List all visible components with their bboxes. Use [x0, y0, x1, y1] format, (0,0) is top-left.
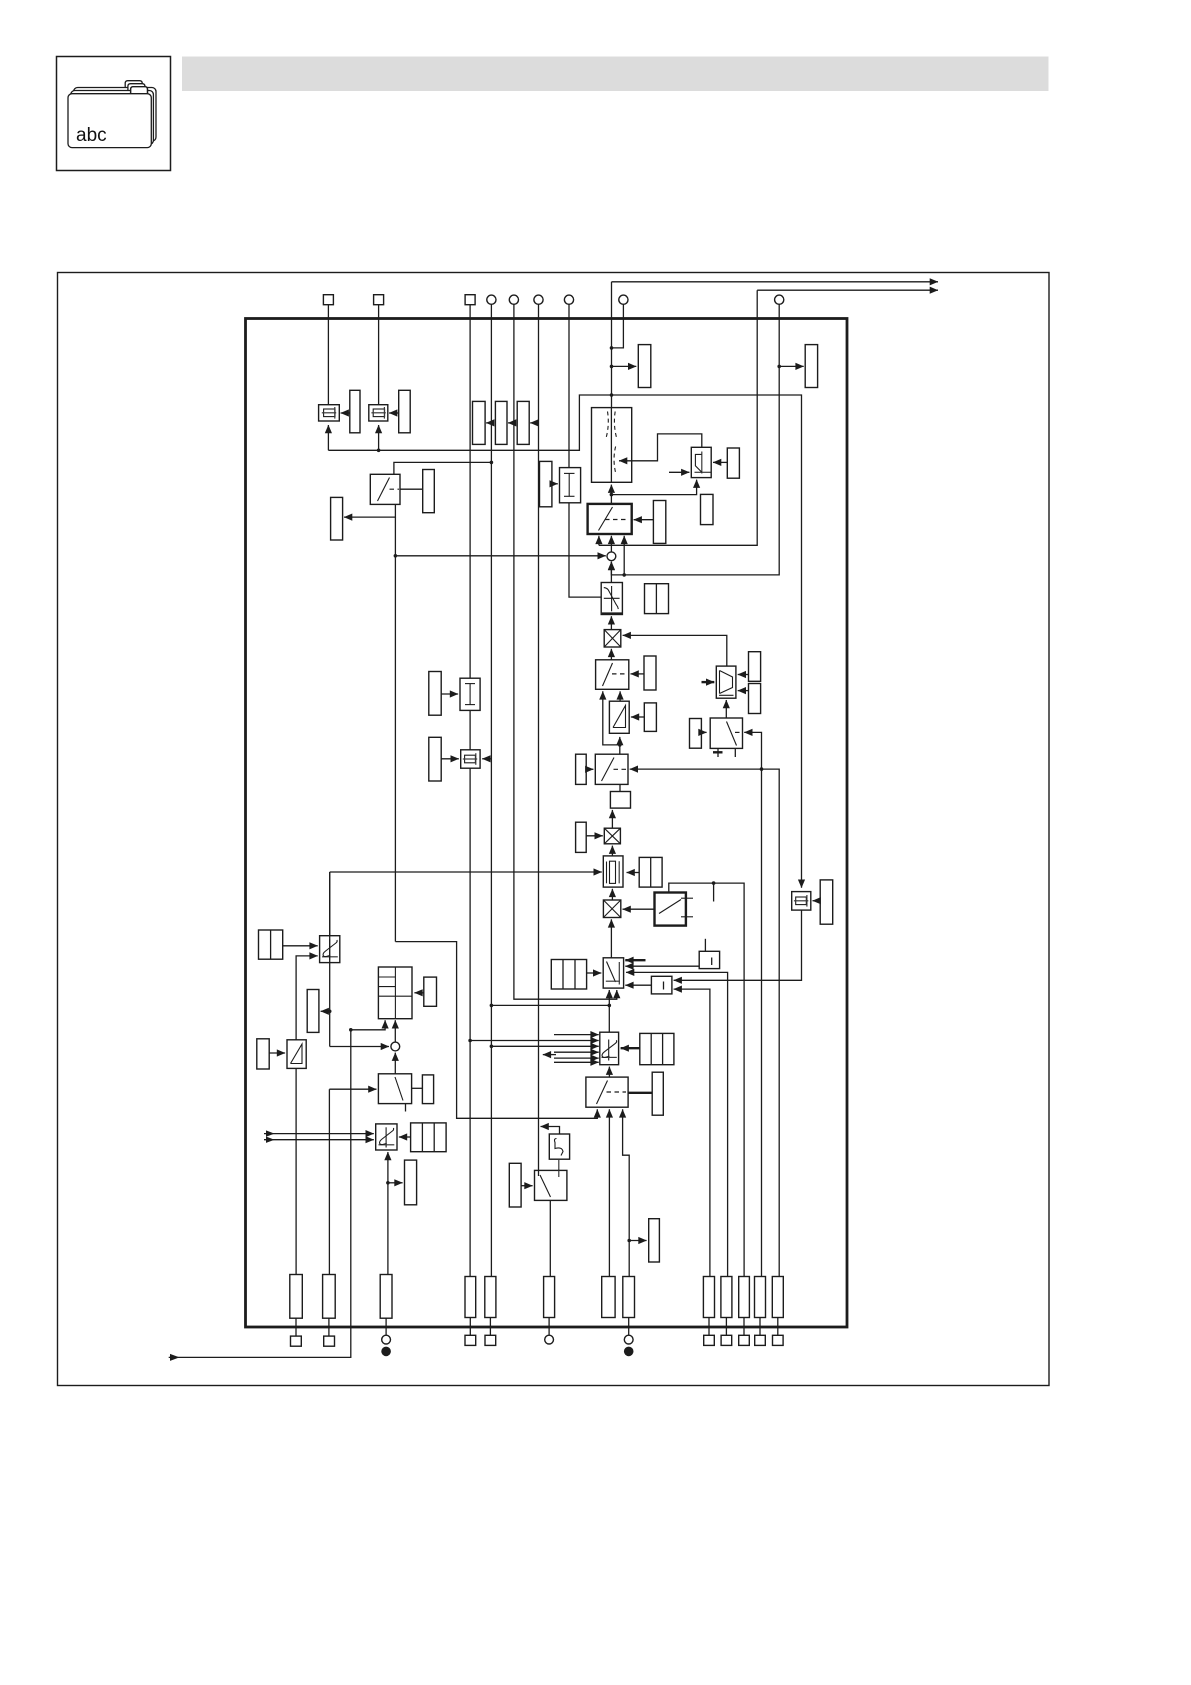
- terminal circle C6: [775, 295, 784, 304]
- parameter rect TR2: [399, 390, 411, 433]
- wire C5 jog to main spine: [612, 304, 624, 348]
- parameter triple rect left of P1: [551, 960, 586, 990]
- S5 output up into S4 bottom: [608, 1067, 610, 1078]
- branch X3 wire into selector S4: [470, 1040, 599, 1042]
- SW0 output down, arrow into TR4: [344, 504, 395, 517]
- display rect right of spine top: [638, 345, 651, 388]
- arrow into S7 left: [521, 1185, 533, 1187]
- arrow up into RB2 bottom: [619, 737, 621, 745]
- junction dot: [610, 346, 614, 350]
- SW1 output up to junction: [610, 495, 612, 504]
- speed controller P1: [603, 958, 623, 988]
- wire S2 bottom to SB top: [619, 784, 621, 791]
- long wire from bottom right into S2: [630, 769, 780, 1276]
- RB3 output down to terminal rect: [295, 1068, 297, 1274]
- wire X1 down to block A1: [327, 305, 329, 405]
- branch C1 into selector S4: [491, 1045, 598, 1047]
- terminal circle C2: [509, 295, 518, 304]
- terminal square X2: [374, 295, 384, 305]
- switch S7: [535, 1170, 567, 1200]
- arrow into EQ left: [441, 758, 459, 760]
- RB2 output up into S1 bottom: [619, 691, 621, 701]
- switch S5: [586, 1077, 628, 1107]
- branch C6 arrow into display rect: [779, 365, 804, 367]
- parameter rect right of CB: [727, 448, 739, 478]
- S2 output bypass up into S1 bottom: [603, 691, 620, 754]
- parameter rect right of B: [820, 880, 833, 924]
- wire C3 vertical to switch S7: [538, 304, 540, 1170]
- arrow into B right: [813, 900, 821, 902]
- wire H1 to arrow2 riser: [599, 290, 757, 545]
- bottom terminal square X13: [485, 1335, 496, 1345]
- wire C1 long vertical to bottom: [490, 304, 492, 1276]
- wire from bottom rect4 into S3 right: [744, 732, 761, 1276]
- junction dot: [777, 365, 781, 369]
- S3 output up into L1: [725, 700, 727, 718]
- SW1 bottom-left input riser: [598, 536, 600, 546]
- bottom entry arrow line: [169, 1030, 351, 1358]
- S1 output up into MX1: [610, 649, 612, 660]
- stub arrow into CB left: [669, 471, 689, 473]
- wire from bottom rect1 into T2 right: [674, 989, 710, 1276]
- thick box T2: [651, 976, 672, 994]
- equals block EQ on X3 wire: [461, 750, 480, 768]
- stub below junction: [713, 883, 715, 901]
- k3 input lines from left: [264, 1133, 374, 1135]
- parameter rect right of L1 lower: [749, 684, 761, 714]
- arrow up into RG bottom: [610, 485, 612, 495]
- multiplier MX1: [604, 630, 621, 647]
- S3 zero ticks: [717, 748, 719, 757]
- bottom terminal squares right cluster: [704, 1335, 715, 1345]
- parameter double rect left of k2: [259, 930, 283, 959]
- RG pass-through wire: [610, 408, 612, 483]
- bottom terminal circle open mid: [545, 1335, 554, 1344]
- arrow into L1 right upper: [738, 674, 749, 676]
- arrow tap into display rect: [321, 1010, 330, 1012]
- block A2: [369, 405, 388, 421]
- bottom terminal rect right cluster: [703, 1277, 714, 1318]
- k output up into sum node: [610, 562, 612, 583]
- parameter double rect right of BB: [639, 857, 662, 887]
- bottom terminal circle filled right: [624, 1347, 634, 1357]
- MUX block M1: [378, 967, 412, 1019]
- block k (speed limiter characteristic): [601, 583, 622, 615]
- bold arrow into S4 right: [621, 1047, 640, 1049]
- parameter rect below CB: [701, 494, 714, 524]
- wire S6 right to rect: [412, 1087, 423, 1089]
- arrow into L1 right lower: [738, 690, 749, 692]
- arrow into SW1 right: [634, 519, 654, 521]
- bold stub arrow into L1 left: [702, 681, 715, 683]
- limiter block L1: [716, 666, 736, 698]
- junction dot: [490, 461, 494, 465]
- junction dot: [712, 881, 716, 885]
- junction dot: [608, 1004, 612, 1008]
- bottom terminal rect group left: [290, 1275, 303, 1319]
- bottom entry wire up into M1: [351, 1020, 385, 1030]
- multiplier MX3: [603, 900, 620, 918]
- wire SW0 to rect TR3: [400, 488, 423, 490]
- parameter double rect right of k: [645, 584, 669, 614]
- block A1: [319, 405, 340, 421]
- parameter rect left of S3: [690, 719, 702, 749]
- arrow into S3 left: [701, 731, 706, 733]
- sum circle under M1: [391, 1042, 400, 1051]
- jog parameter rect: [649, 1219, 660, 1262]
- terminal circle C3: [534, 295, 543, 304]
- parameter rect R1: [473, 401, 486, 444]
- switch S1: [596, 660, 629, 690]
- switch SW0: [370, 474, 400, 504]
- sum node circle: [607, 552, 616, 561]
- terminal circle C4: [564, 295, 573, 304]
- junction dot: [610, 365, 614, 369]
- top output arrow 2: [757, 289, 938, 291]
- switch S3: [710, 718, 742, 748]
- wire from bottom rect up into S5: [608, 1109, 610, 1276]
- terminal circle C1: [487, 295, 496, 304]
- thick display rect: [405, 1160, 417, 1205]
- wire to sum node circle: [395, 555, 605, 557]
- wire X3 long vertical to bottom: [469, 305, 471, 1277]
- terminal square X1: [323, 295, 333, 305]
- arrow TR2 into A2: [389, 412, 399, 414]
- branch arrow into thick display rect: [388, 1182, 403, 1184]
- k2 bus vertical: [329, 872, 331, 1047]
- parameter rect TR1: [350, 390, 360, 433]
- junction dot: [618, 743, 622, 747]
- riser bus into A1 bottom: [327, 425, 329, 450]
- icon frame box: [57, 57, 171, 171]
- parameter rect left of S2: [576, 754, 587, 784]
- FS top wire to right bus: [669, 883, 744, 1276]
- outer diagram border: [58, 273, 1050, 1386]
- arrow spine into display rect: [612, 365, 637, 367]
- branch C3 arrow into rect R3: [530, 422, 538, 424]
- wire with jog from bottom into S5 right: [623, 1109, 630, 1276]
- branch C1 to switch SW0 top: [394, 462, 492, 474]
- top output arrow 1: [612, 281, 939, 283]
- P1 output right then down to terminal rect: [626, 972, 728, 1276]
- arrow from C1 wire into EQ right: [482, 758, 491, 760]
- T2 output into P1 right: [625, 984, 651, 986]
- long bus from k2 into BB left: [330, 871, 602, 873]
- parameter rect right of M1: [424, 977, 437, 1006]
- junction dot: [760, 767, 764, 771]
- parameter rect right of S5: [652, 1072, 663, 1115]
- bottom terminal circle filled: [381, 1347, 391, 1357]
- branch C1 tap to controller riser: [491, 1004, 609, 1006]
- k2 output up to long bus: [329, 872, 331, 936]
- parameter rect TR3: [423, 470, 435, 513]
- branch to curve block CB bottom: [611, 480, 696, 495]
- T1 output into P1 right: [625, 965, 699, 967]
- B5 bottom stub into S7: [558, 1159, 560, 1176]
- folder icon (stacked folders): [68, 81, 156, 148]
- arrow into M1 right: [414, 992, 423, 994]
- terminal circle C5: [619, 295, 628, 304]
- inner thick border: [246, 319, 848, 1328]
- arrow from S4 area left into wire C3: [543, 1054, 556, 1056]
- branch arrow into jog rect: [629, 1240, 646, 1242]
- arrow up into k bottom: [610, 616, 612, 629]
- BB output up into MX2: [611, 846, 613, 856]
- bus from spine right to block B: [612, 395, 802, 888]
- terminal wire into S6 left: [329, 1088, 376, 1090]
- curve block k3: [376, 1124, 397, 1150]
- parameter rect left of I2: [429, 672, 441, 716]
- ramp block RB3: [287, 1040, 306, 1069]
- parameter rect TR4: [331, 497, 343, 540]
- switch SW1 (bold): [588, 504, 632, 534]
- gray title bar: [182, 57, 1049, 92]
- bottom terminal square X10: [291, 1336, 302, 1346]
- arrow into RB2 right: [631, 716, 644, 718]
- junction dot: [328, 1010, 332, 1014]
- arrow into I1: [552, 483, 558, 485]
- junction dot: [468, 1039, 472, 1043]
- S-curve block B5: [549, 1134, 569, 1159]
- branch C1 arrow into rect R1: [486, 422, 491, 424]
- arrow into MX2 left: [586, 835, 603, 837]
- small box SB below S2: [610, 792, 630, 809]
- bottom terminal circle open right: [624, 1335, 633, 1344]
- junction dot: [386, 1181, 390, 1185]
- terminal riser X2b: [328, 1089, 330, 1274]
- junction dot: [610, 493, 614, 497]
- curve block CB: [691, 447, 711, 477]
- display rect top right: [805, 345, 817, 388]
- parameter rect right of S1: [644, 656, 656, 690]
- limiter feedback into RG: [619, 434, 702, 461]
- S7 output down to terminal rect: [549, 1200, 551, 1276]
- bottom terminal square X11: [324, 1336, 335, 1346]
- integrator block I2 on X3 wire: [460, 678, 480, 710]
- bus from spine left down to A-block bus: [328, 395, 611, 450]
- parameter rect right of L1 upper: [749, 652, 761, 682]
- S6 output up into sum circle: [394, 1053, 396, 1074]
- S4 input stubs: [554, 1034, 599, 1036]
- riser bus into A2 bottom: [378, 425, 380, 450]
- SW0 output long vertical: [394, 517, 396, 942]
- arrow into BB right: [627, 872, 640, 874]
- parameter triple rect right of S4: [640, 1033, 674, 1064]
- k2 bus into sum circle: [330, 1046, 389, 1048]
- selector block S4: [600, 1032, 619, 1065]
- curve block k2: [320, 936, 340, 963]
- junction dot: [377, 449, 381, 453]
- stubs through border to terminals: [295, 1318, 297, 1336]
- parameter rect left of RB3: [257, 1039, 269, 1069]
- arrow into P1 left: [587, 972, 602, 974]
- block B output down into T2 right: [674, 910, 802, 980]
- bottom terminal rect mid: [465, 1277, 476, 1318]
- wire C4 down into integrator I1: [568, 304, 570, 467]
- junction dot: [349, 1028, 353, 1032]
- parameter rect left of S7: [509, 1163, 521, 1207]
- parameter rect R3: [517, 401, 529, 444]
- P1 output up into MX3 bottom: [610, 919, 612, 958]
- parameter rect left of EQ: [429, 737, 441, 781]
- sum circle output up into M1: [394, 1020, 396, 1042]
- junction dot: [394, 554, 398, 558]
- main spine: ramp generator output up to arrow 1: [611, 282, 613, 408]
- sum node output into SW1 middle: [610, 536, 612, 552]
- arrow into k3 right: [399, 1136, 411, 1138]
- block B (binector display): [792, 892, 811, 911]
- arrow FS into MX3 right: [623, 908, 655, 910]
- S4 output up into P1 bottom: [608, 990, 610, 1032]
- wire from RB3 up into k2: [296, 956, 318, 1040]
- parameter rect left of MX2: [576, 822, 587, 852]
- arrow TR1 into A1: [341, 412, 350, 414]
- branch C2 arrow into rect R2: [508, 422, 514, 424]
- absolute value block BB: [603, 856, 623, 887]
- bottom terminal square X12: [465, 1335, 476, 1345]
- BB output down into MX3: [611, 889, 613, 900]
- bold stub arrow into P1 right: [625, 959, 645, 961]
- arrow into RB3 left: [269, 1052, 285, 1054]
- parameter rect R2 (bold): [495, 401, 507, 444]
- wire C6 down then left to sum node: [611, 304, 779, 575]
- junction dot: [490, 1045, 494, 1049]
- parameter triple rect right of k3: [411, 1123, 447, 1152]
- parameter rect right of S6: [422, 1075, 433, 1104]
- bottom terminal circle open: [382, 1335, 391, 1344]
- arrow into S2 left: [586, 768, 593, 770]
- wire down and right to S5 bottom bus: [395, 942, 597, 1119]
- wire C2 vertical: [514, 304, 617, 999]
- switch S6: [378, 1074, 411, 1104]
- junction dot: [490, 1004, 494, 1008]
- B5 output up left into wire C3: [541, 1127, 560, 1135]
- thick box T1: [699, 951, 719, 968]
- field characteristic switch FS: [655, 893, 686, 926]
- switch S2: [595, 754, 628, 784]
- branch riser into switch SW1 bottom right: [623, 536, 625, 575]
- arrow into S1 right: [631, 673, 645, 675]
- junction dot: [627, 1239, 631, 1243]
- junction dot: [610, 393, 614, 397]
- integrator block I1: [560, 468, 581, 503]
- bold wire S5 right to rect: [628, 1092, 652, 1094]
- I1 output down to block k: [569, 503, 601, 597]
- parameter rect right of SW1: [653, 501, 665, 544]
- parameter rect right of RB2: [644, 703, 656, 732]
- ramp block RB2: [609, 701, 629, 733]
- arrow up into SB bottom: [611, 810, 613, 828]
- parameter rect left of I1: [540, 461, 552, 506]
- terminal wire up into k3 bottom: [387, 1152, 389, 1275]
- stub above T1: [704, 939, 706, 952]
- terminal square X3: [465, 295, 475, 305]
- limiter L1 output up left into MX1: [623, 635, 727, 666]
- arrow DL into k2: [283, 945, 318, 947]
- wire X2 down to block A2: [378, 305, 380, 405]
- ramp generator RG: [592, 408, 632, 483]
- arrow into I2 left: [441, 693, 458, 695]
- arrow into CB right: [713, 461, 727, 463]
- junction dot: [622, 573, 626, 577]
- display rect tapped from k2 bus: [307, 990, 319, 1033]
- svg-text:abc: abc: [76, 125, 107, 146]
- multiplier MX2: [604, 828, 620, 844]
